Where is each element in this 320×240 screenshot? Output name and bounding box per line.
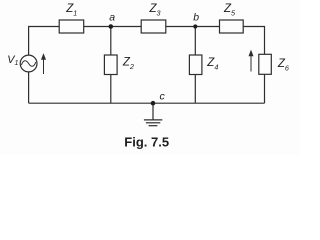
wire Z5 to top-right corner down to Z6 bbox=[243, 27, 264, 55]
resistor Z6 bbox=[259, 54, 272, 74]
svg-text:a: a bbox=[109, 12, 115, 24]
svg-text:c: c bbox=[160, 91, 166, 103]
node a bbox=[109, 24, 114, 29]
wire node a down to Z2 bbox=[110, 27, 112, 56]
node c bbox=[151, 101, 156, 106]
arrow at Z6 bbox=[249, 51, 253, 72]
resistor Z5 bbox=[220, 20, 244, 33]
wire Z6 bottom to bottom rail bbox=[264, 74, 266, 103]
svg-text:Z1: Z1 bbox=[65, 3, 77, 18]
svg-text:Z2: Z2 bbox=[122, 57, 134, 72]
ground bbox=[152, 103, 154, 119]
resistor Z4 bbox=[189, 55, 202, 75]
resistor Z1 bbox=[59, 20, 83, 33]
wire Z1 to node a to Z3 bbox=[84, 26, 142, 28]
wire Z3 to node b to Z5 bbox=[166, 26, 220, 28]
resistor Z2 bbox=[104, 55, 117, 75]
wire source bottom to bottom-left corner bbox=[28, 72, 30, 103]
node b bbox=[193, 24, 197, 28]
resistor Z3 bbox=[141, 20, 166, 33]
svg-text:Z5: Z5 bbox=[223, 3, 236, 18]
svg-text:Z4: Z4 bbox=[206, 57, 218, 72]
wire source top to top-left corner to Z1 bbox=[29, 27, 60, 56]
svg-text:V1: V1 bbox=[7, 54, 18, 67]
svg-text:b: b bbox=[193, 12, 199, 24]
wire Z2 to bottom rail bbox=[110, 75, 112, 104]
svg-text:Z6: Z6 bbox=[277, 58, 289, 73]
svg-text:Z3: Z3 bbox=[149, 3, 161, 18]
arrow at source bbox=[42, 55, 46, 75]
svg-text:Fig. 7.5: Fig. 7.5 bbox=[124, 135, 169, 150]
wire Z4 to bottom rail bbox=[194, 75, 196, 104]
source V1 bbox=[20, 55, 37, 72]
wire bottom rail bbox=[29, 102, 265, 104]
wire node b down to Z4 bbox=[194, 27, 196, 56]
